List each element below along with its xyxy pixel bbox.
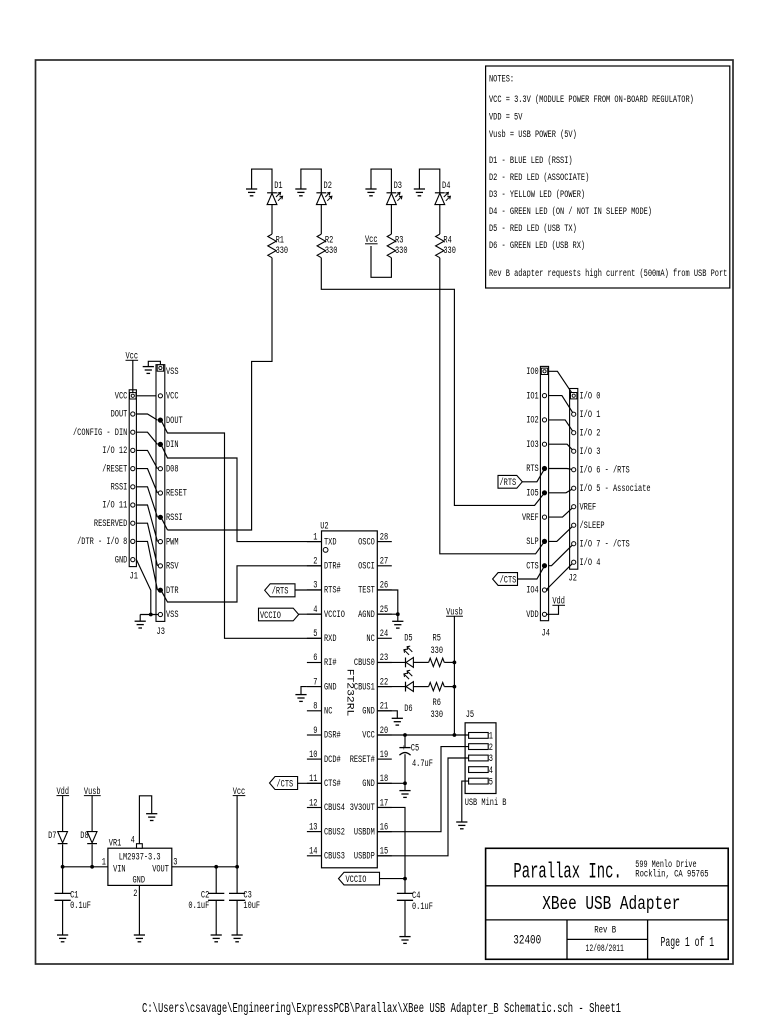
resistor R4 330 (436, 234, 456, 258)
J3 pin RSV (158, 564, 162, 568)
title block (486, 848, 729, 959)
svg-text:C4: C4 (412, 890, 420, 901)
svg-text:3: 3 (489, 753, 493, 764)
svg-text:10: 10 (309, 749, 317, 760)
svg-text:GND: GND (115, 554, 128, 565)
svg-text:/RESET: /RESET (102, 463, 127, 474)
J1 pin I/O 12 (131, 448, 135, 452)
J2 pin labels (580, 390, 651, 568)
wire VIN rail (63, 866, 108, 868)
svg-text:330: 330 (276, 245, 289, 256)
svg-text:DOUT: DOUT (111, 409, 128, 420)
svg-text:CTS#: CTS# (324, 778, 341, 789)
svg-text:330: 330 (325, 245, 338, 256)
J1 pin GND (131, 558, 135, 562)
svg-text:19: 19 (380, 749, 388, 760)
capacitor C4 0.1uF (397, 890, 433, 912)
power label Vcc (J1) (126, 351, 139, 362)
svg-text:I/O 3: I/O 3 (580, 446, 601, 457)
wire USBDM to J5 pin 2 (377, 747, 468, 832)
svg-text:I/O 0: I/O 0 (580, 390, 601, 401)
wire D4 cathode to ground (419, 169, 439, 193)
svg-text:TXD: TXD (324, 536, 337, 547)
svg-text:D08: D08 (166, 463, 179, 474)
svg-text:VR1: VR1 (109, 838, 122, 849)
svg-text:IO4: IO4 (526, 585, 539, 596)
J3 pin labels (166, 366, 187, 620)
regulator VR1 LM2937-3.3 (102, 835, 178, 900)
connector J2 (569, 389, 578, 584)
wire J4 IO5 to J2 I/O 5 - Associate (549, 488, 574, 493)
wire J1 /DTR - I/O 8 to J3 (136, 541, 157, 590)
svg-text:R5: R5 (433, 633, 441, 644)
LED D1 (267, 180, 283, 205)
svg-text:D4 - GREEN LED (ON / NOT IN SL: D4 - GREEN LED (ON / NOT IN SLEEP MODE) (489, 206, 652, 217)
wire /CTS to J4 CTS (518, 566, 545, 579)
ground (VR1 pin 4) (146, 814, 157, 821)
wire J1 RESERVED to J3 (136, 523, 157, 566)
svg-text:18: 18 (380, 773, 388, 784)
svg-text:/SLEEP: /SLEEP (580, 520, 605, 531)
svg-text:FT232RL: FT232RL (345, 669, 356, 717)
svg-text:2: 2 (313, 556, 317, 567)
resistor R2 330 (317, 234, 337, 258)
svg-text:Vusb = USB POWER (5V): Vusb = USB POWER (5V) (489, 129, 577, 140)
svg-text:/CONFIG - DIN: /CONFIG - DIN (73, 427, 127, 438)
svg-text:I/O 11: I/O 11 (102, 500, 127, 511)
svg-text:R6: R6 (433, 697, 441, 708)
svg-text:7: 7 (313, 676, 317, 687)
J3 pin D08 (158, 467, 162, 471)
J3 pin VSS (158, 612, 162, 616)
J3 pin RSSI (158, 515, 162, 519)
wire Vdd to D7 (62, 796, 64, 832)
wire Vusb to D8 (91, 796, 93, 832)
wire D1 cathode to ground (252, 169, 272, 193)
svg-text:RESET: RESET (166, 488, 187, 499)
svg-text:D5 - RED LED (USB TX): D5 - RED LED (USB TX) (489, 223, 577, 234)
U2 pin 1 marker (323, 548, 328, 553)
J4 pin RTS (542, 466, 546, 470)
svg-text:NC: NC (366, 633, 374, 644)
J1 pin /CONFIG - DIN (131, 430, 135, 434)
svg-text:TEST: TEST (358, 585, 375, 596)
svg-text:C3: C3 (243, 889, 251, 900)
wire J3 DIN to U2 TXD (161, 444, 322, 541)
svg-text:4: 4 (131, 835, 135, 846)
wire CBUS1 to D6 (377, 686, 405, 688)
ground (U2 pin 7) (295, 695, 306, 702)
wire D3 cathode to ground (371, 169, 391, 193)
U2 pin labels (324, 536, 375, 861)
svg-text:RSV: RSV (166, 561, 179, 572)
power label Vdd (J4) (552, 596, 565, 607)
wire J4 IO0 to J2 I/O 0 (549, 371, 574, 395)
wire D5 to R5 (413, 661, 428, 663)
resistor R3 330 (387, 234, 407, 258)
svg-text:DSR#: DSR# (324, 730, 341, 741)
svg-text:SLP: SLP (526, 536, 539, 547)
op-amp U2 FT232RL body (320, 520, 377, 868)
svg-text:I/O 4: I/O 4 (580, 557, 601, 568)
svg-text:GND: GND (362, 706, 375, 717)
LED D5 (404, 633, 414, 668)
wire VOUT rail (172, 866, 237, 868)
svg-text:/CTS: /CTS (500, 574, 517, 585)
svg-text:PWM: PWM (166, 536, 179, 547)
wire J4 CTS to J2 I/O 7 - /CTS (549, 544, 574, 566)
svg-text:J4: J4 (542, 628, 550, 639)
svg-text:VREF: VREF (580, 501, 597, 512)
svg-text:D1: D1 (274, 180, 282, 191)
svg-text:CBUS4: CBUS4 (324, 802, 345, 813)
svg-text:C1: C1 (70, 889, 78, 900)
svg-text:I/O 12: I/O 12 (102, 445, 127, 456)
J4 pin VREF (542, 515, 546, 519)
connector J5 USB Mini B (465, 709, 507, 808)
svg-text:C5: C5 (411, 743, 419, 754)
J4 pin IO4 (542, 588, 546, 592)
svg-text:24: 24 (380, 628, 388, 639)
J1 pin 1 (VCC) square (130, 393, 136, 399)
J3 pin PWM (158, 540, 162, 544)
J4 pin CTS (542, 564, 546, 568)
wire J4 IO4 to J2 I/O 4 (546, 562, 574, 590)
svg-text:13: 13 (309, 821, 317, 832)
ground (D1) (246, 189, 257, 196)
svg-text:/CTS: /CTS (277, 778, 294, 789)
svg-text:I/O 7 - /CTS: I/O 7 - /CTS (580, 538, 630, 549)
svg-text:VCC: VCC (362, 730, 375, 741)
svg-text:D6: D6 (404, 703, 412, 714)
wire J3 VSS top to ground (148, 361, 160, 366)
J4 pin labels (522, 366, 539, 620)
ground (C3) (232, 935, 243, 942)
wire J1 I/O 11 to J3 (136, 505, 157, 542)
svg-text:RXD: RXD (324, 633, 337, 644)
wire J1 /CONFIG - DIN to J3 (136, 432, 157, 444)
svg-text:Rocklin, CA 95765: Rocklin, CA 95765 (635, 869, 708, 881)
J1 pin RSSI (131, 485, 135, 489)
wire J4 SLP to J2 /SLEEP (549, 525, 574, 541)
svg-text:RESERVED: RESERVED (94, 518, 127, 529)
svg-text:GND: GND (362, 778, 375, 789)
svg-text:11: 11 (309, 773, 317, 784)
J2 pin VREF (572, 505, 576, 509)
J3 pin DIN (158, 442, 162, 446)
J4 pin IO0 square (541, 368, 547, 374)
J3 pin RESET (158, 491, 162, 495)
svg-text:23: 23 (380, 652, 388, 663)
wire C4 to ground (404, 900, 406, 936)
diode D8 (80, 830, 97, 844)
ground (U2 pin 18 / C5) (399, 791, 410, 798)
wire R3 to Vcc (371, 246, 391, 277)
svg-text:D2 - RED LED (ASSOCIATE): D2 - RED LED (ASSOCIATE) (489, 172, 589, 183)
capacitor C5 4.7uF (399, 735, 433, 783)
svg-text:1: 1 (313, 531, 317, 542)
ground (C4) (399, 937, 410, 944)
svg-text:J2: J2 (569, 573, 577, 584)
svg-text:RESET#: RESET# (350, 754, 375, 765)
svg-text:17: 17 (380, 797, 388, 808)
power label Vusb (input) (84, 786, 101, 797)
svg-text:I/O 2: I/O 2 (580, 427, 601, 438)
wire VR1 GND pin 2 to ground (138, 885, 140, 935)
svg-text:C2: C2 (201, 889, 209, 900)
capacitor C1 0.1uF (62, 867, 64, 894)
svg-text:VSS: VSS (166, 609, 179, 620)
wire J1 I/O 12 to J3 (136, 450, 157, 468)
svg-text:VIN: VIN (113, 863, 126, 874)
ground (C2) (211, 935, 222, 942)
wire Vdd to J4 VDD (545, 606, 559, 615)
ground (U2 pin 21) (392, 718, 403, 725)
wire J3 VSS bottom to ground (140, 614, 160, 616)
wire J4 IO3 to J2 I/O 3 (549, 444, 574, 451)
capacitor C3 10uF (229, 889, 260, 911)
svg-text:VCCIO: VCCIO (346, 874, 367, 885)
J3 pin DTR (158, 588, 162, 592)
svg-text:OSCO: OSCO (358, 536, 375, 547)
svg-text:330: 330 (431, 645, 444, 656)
svg-text:4.7uF: 4.7uF (412, 758, 433, 769)
svg-text:CTS: CTS (526, 560, 539, 571)
svg-text:J5: J5 (466, 709, 474, 720)
svg-text:CBUS3: CBUS3 (324, 851, 345, 862)
wire Vcc to VOUT rail and C3 (236, 796, 238, 894)
wire VCCIO flag to junction (380, 878, 406, 880)
ground (D2) (295, 189, 306, 196)
svg-text:VOUT: VOUT (152, 863, 169, 874)
J2 pin I/O 2 (572, 431, 576, 435)
wire R4 to J4 SLP (440, 258, 545, 554)
svg-text:CBUS2: CBUS2 (324, 826, 345, 837)
wire C2 to ground (215, 900, 217, 935)
svg-text:Rev B adapter requests high cu: Rev B adapter requests high current (500… (489, 268, 727, 279)
svg-text:R1: R1 (276, 235, 284, 246)
wire J1 GND to J3 VSS (136, 560, 150, 615)
svg-text:1: 1 (489, 731, 493, 742)
svg-text:VSS: VSS (166, 366, 179, 377)
svg-text:RTS#: RTS# (324, 585, 341, 596)
svg-text:9: 9 (313, 725, 317, 736)
wire VR1 pin 4 to ground (139, 796, 151, 844)
svg-text:I/O 1: I/O 1 (580, 409, 601, 420)
svg-text:3V3OUT: 3V3OUT (350, 802, 375, 813)
wire CBUS0 to D5 (377, 661, 405, 663)
J4 pin IO2 (542, 418, 546, 422)
wire R6 to Vusb rail (444, 686, 454, 688)
svg-text:D1 - BLUE LED (RSSI): D1 - BLUE LED (RSSI) (489, 155, 573, 166)
svg-text:DOUT: DOUT (166, 415, 183, 426)
svg-text:DIN: DIN (166, 439, 179, 450)
J4 pin SLP (542, 539, 546, 543)
J3 pin VCC (158, 394, 162, 398)
power label Vcc (D3) (365, 234, 378, 245)
svg-text:GND: GND (133, 875, 146, 886)
wire D2 anode to R2 (320, 205, 322, 235)
svg-text:330: 330 (443, 245, 456, 256)
J2 pin I/O 1 (572, 412, 576, 416)
svg-text:CBUS0: CBUS0 (354, 657, 375, 668)
ground (J5) (456, 822, 467, 829)
svg-text:RTS: RTS (526, 463, 539, 474)
svg-text:1: 1 (102, 856, 106, 867)
J2 pin I/O 5 - Associate (572, 486, 576, 490)
svg-text:I/O 6 - /RTS: I/O 6 - /RTS (580, 464, 630, 475)
J2 pin I/O 3 (572, 449, 576, 453)
J3 pin DOUT (158, 418, 162, 422)
svg-text:D3: D3 (394, 180, 402, 191)
svg-text:VCCIO: VCCIO (324, 609, 345, 620)
svg-text:0.1uF: 0.1uF (70, 900, 91, 911)
svg-text:8: 8 (313, 701, 317, 712)
svg-text:R3: R3 (395, 235, 403, 246)
svg-text:VCC: VCC (166, 391, 179, 402)
svg-text:U2: U2 (320, 520, 328, 531)
svg-text:D5: D5 (404, 633, 412, 644)
svg-text:D7: D7 (48, 830, 56, 841)
svg-text:0.1uF: 0.1uF (412, 901, 433, 912)
wire Vcc to J1 pin VCC (132, 360, 134, 392)
svg-text:4: 4 (313, 604, 317, 615)
svg-text:3: 3 (173, 856, 177, 867)
svg-text:10uF: 10uF (243, 900, 260, 911)
svg-text:+: + (402, 744, 406, 753)
svg-text:3: 3 (313, 580, 317, 591)
wire GND pin7 to ground (301, 687, 307, 695)
svg-text:VCCIO: VCCIO (260, 610, 281, 621)
svg-text:LM2937-3.3: LM2937-3.3 (119, 851, 161, 862)
wire J4 IO1 to J2 I/O 1 (549, 396, 574, 415)
wire R2 to J4 IO5 (321, 258, 544, 506)
wire J4 VREF to J2 VREF (549, 507, 574, 517)
svg-text:28: 28 (380, 531, 388, 542)
svg-text:DTR: DTR (166, 585, 179, 596)
wire J3 DTR to U2 DTR# (161, 566, 322, 602)
svg-text:CBUS1: CBUS1 (354, 681, 375, 692)
wire /RTS to J4 RTS (522, 469, 544, 482)
wire J4 IO2 to J2 I/O 2 (549, 420, 574, 433)
J3 pin VSS square (157, 365, 163, 371)
svg-text:IO2: IO2 (526, 415, 539, 426)
wire GND pin21 to ground (377, 711, 397, 719)
ground (D3) (365, 189, 376, 196)
wire VCC pin20 to J5 pin 1 (377, 734, 468, 736)
J2 pin I/O 4 (572, 560, 576, 564)
J1 pin /DTR - I/O 8 (131, 539, 135, 543)
svg-text:AGND: AGND (358, 609, 375, 620)
net flag /RTS (J4) (498, 475, 522, 488)
LED D6 (404, 670, 414, 714)
svg-text:DCD#: DCD# (324, 754, 341, 765)
svg-text:26: 26 (380, 580, 388, 591)
svg-text:J3: J3 (157, 626, 165, 637)
svg-text:330: 330 (395, 245, 408, 256)
junction J1 GND / J3 VSS (149, 613, 153, 617)
svg-text:IO5: IO5 (526, 488, 539, 499)
net flag /RTS (U2 pin3) (265, 584, 295, 597)
ground (VR1 pin 2) (134, 935, 145, 942)
svg-text:VDD: VDD (526, 609, 539, 620)
wire J1 VCC to J3 VCC (136, 395, 156, 397)
svg-text:/DTR - I/O 8: /DTR - I/O 8 (77, 536, 127, 547)
svg-text:330: 330 (431, 709, 444, 720)
svg-text:16: 16 (380, 821, 388, 832)
wire /CTS to CTS# (298, 782, 322, 784)
power label Vdd (input) (57, 786, 70, 797)
J2 pin I/O 0 square (571, 393, 577, 399)
svg-text:VCC: VCC (115, 391, 128, 402)
wire J1 RSSI to J3 (136, 487, 157, 518)
svg-text:R2: R2 (325, 235, 333, 246)
wire TEST/AGND to ground (377, 590, 398, 621)
svg-text:/RTS: /RTS (272, 586, 289, 597)
svg-text:VCC = 3.3V (MODULE POWER FROM: VCC = 3.3V (MODULE POWER FROM ON-BOARD R… (489, 94, 694, 105)
svg-text:22: 22 (380, 676, 388, 687)
svg-text:2: 2 (489, 742, 493, 753)
svg-text:2: 2 (133, 888, 137, 899)
svg-text:5: 5 (489, 776, 493, 787)
resistor R1 330 (268, 234, 288, 258)
svg-text:VDD = 5V: VDD = 5V (489, 112, 522, 123)
J4 pin IO1 (542, 394, 546, 398)
J2 pin I/O 7 - /CTS (572, 542, 576, 546)
wire D7 to VIN rail (62, 844, 64, 867)
wire D1 anode to R1 (271, 205, 273, 235)
wire USBDP to J5 pin 3 (377, 758, 468, 856)
wire J1 /RESET to J3 (136, 469, 157, 493)
wire J1 DOUT to J3 (136, 414, 157, 420)
J2 pin /SLEEP (572, 523, 576, 527)
capacitor C2 0.1uF (215, 867, 217, 894)
wire GND pin18 to ground (377, 782, 405, 784)
J1 pin DOUT (131, 412, 135, 416)
svg-text:Page 1 of 1: Page 1 of 1 (661, 936, 715, 951)
wire D8 to VIN rail (91, 844, 93, 867)
svg-text:12: 12 (309, 797, 317, 808)
svg-text:IO1: IO1 (526, 390, 539, 401)
svg-text:R4: R4 (443, 235, 451, 246)
wire C1 to ground (62, 900, 64, 935)
svg-text:20: 20 (380, 725, 388, 736)
wire R1 to J3 RSSI (168, 258, 273, 530)
svg-text:/RTS: /RTS (500, 477, 517, 488)
connector J4 (540, 366, 550, 638)
wire J5 pin 5 to ground (462, 781, 469, 822)
svg-text:IO0: IO0 (526, 366, 539, 377)
net flag /CTS (U2 pin11) (270, 777, 298, 790)
wire R5 to Vusb rail (444, 661, 454, 663)
svg-text:GND: GND (324, 681, 337, 692)
J4 pin IO5 (542, 491, 546, 495)
connector J1 (129, 390, 138, 582)
svg-text:21: 21 (380, 701, 388, 712)
wire Vusb rail (453, 616, 455, 735)
svg-text:5: 5 (313, 628, 317, 639)
J2 pin I/O 6 - /RTS (572, 468, 576, 472)
svg-text:USB Mini B: USB Mini B (465, 797, 507, 808)
svg-text:4: 4 (489, 765, 493, 776)
svg-text:25: 25 (380, 604, 388, 615)
ground (J3 bottom) (135, 621, 146, 628)
svg-text:6: 6 (313, 652, 317, 663)
svg-text:NOTES:: NOTES: (489, 74, 514, 85)
ground (C1) (57, 935, 68, 942)
J1 pin labels (73, 391, 127, 566)
power label Vcc (VOUT) (233, 786, 246, 797)
